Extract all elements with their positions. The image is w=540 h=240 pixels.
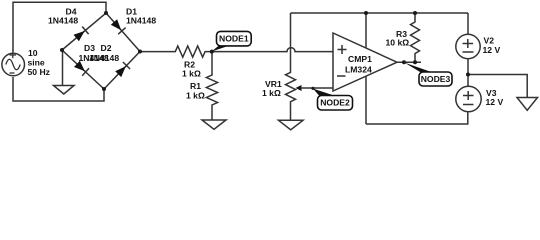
ground at supplies midpoint (517, 98, 538, 111)
svg-text:1N4148: 1N4148 (89, 53, 119, 63)
svg-text:1 kΩ: 1 kΩ (262, 88, 281, 98)
wire: op-amp V+ pin to top rail (365, 13, 367, 48)
V2 minus mark (463, 51, 474, 53)
svg-text:CMP1: CMP1 (348, 54, 372, 64)
ground below R1 (202, 120, 226, 129)
wire: op-amp V- pin to bottom rail (365, 76, 367, 124)
svg-text:1 kΩ: 1 kΩ (186, 91, 205, 101)
junction: node NODE2 anchor (311, 87, 314, 90)
junction: V+ pin on top rail (364, 11, 368, 15)
ground below VR1 (279, 120, 304, 130)
V3 plus mark (463, 91, 474, 100)
svg-text:10 kΩ: 10 kΩ (386, 38, 410, 48)
svg-text:D3: D3 (84, 43, 95, 53)
junction: V2/V3 midpoint (466, 73, 470, 77)
diode D3 cathode bar (82, 68, 89, 75)
svg-text:10: 10 (28, 48, 38, 58)
wire: -12V bottom rail to V3 (366, 112, 468, 124)
diode D4 (74, 31, 85, 41)
svg-text:50 Hz: 50 Hz (28, 67, 50, 77)
svg-text:LM324: LM324 (345, 65, 372, 75)
op-amp non-inverting input plus mark (338, 45, 347, 54)
junction: node NODE1 (R2/R1) (210, 50, 214, 54)
bridge diamond wires (62, 13, 140, 89)
node NODE3 callout tail (405, 63, 433, 73)
wire: +12V top rail (291, 12, 469, 14)
svg-text:1 kΩ: 1 kΩ (182, 69, 201, 79)
diode D2 cathode bar (123, 62, 130, 69)
node NODE2 callout box (318, 96, 353, 111)
resistor R3 with wires to rail and output (411, 13, 420, 62)
AC source V1 body (2, 53, 25, 76)
svg-text:NODE2: NODE2 (320, 98, 350, 108)
svg-text:12 V: 12 V (486, 97, 504, 107)
node NODE3 callout box (419, 72, 452, 86)
V3 minus mark (463, 104, 474, 106)
op-amp U1 CMP1 triangle (333, 33, 397, 91)
diode D1 cathode bar (118, 28, 125, 35)
op-amp inverting input minus mark (337, 75, 346, 77)
node NODE1 callout box (217, 31, 252, 46)
wire: op-amp output (397, 61, 421, 63)
svg-text:NODE3: NODE3 (421, 74, 451, 84)
svg-text:D2: D2 (101, 43, 112, 53)
VR1 wiper arrow (296, 85, 302, 91)
node NODE2 callout tail (313, 89, 334, 96)
diode D3 (74, 61, 85, 72)
diode D1 (111, 19, 121, 30)
junction: node NODE3 anchor (402, 60, 406, 64)
battery source V3 body (456, 86, 481, 111)
wire: V2 bottom to V3 top (467, 59, 469, 87)
node NODE1 callout tail (212, 46, 229, 52)
diode D2 (115, 66, 126, 77)
svg-text:1N4148: 1N4148 (126, 16, 156, 26)
svg-text:R1: R1 (190, 81, 201, 91)
diode D4 cathode bar (82, 27, 88, 35)
wire: V2 top to rail (467, 13, 469, 34)
AC source V1 sine symbol (6, 59, 20, 70)
wire: source top to bridge top corner (13, 2, 106, 52)
AC source V1 plus mark (10, 52, 17, 58)
svg-text:12 V: 12 V (483, 45, 501, 55)
wire: supply midpoint to right ground (468, 75, 527, 98)
resistor R1 with wire from NODE1 (206, 52, 217, 120)
AC source V1 minus mark (10, 72, 15, 74)
junction: bridge left corner (60, 48, 64, 52)
junction: R3 bottom on output (413, 60, 417, 64)
potentiometer VR1 with feed wire from rail (286, 13, 296, 120)
junction: bridge bottom corner (102, 87, 106, 91)
V2 plus mark (463, 39, 474, 48)
wire bridge to R2, resistor R2, wire to op-amp + input with hop over VR1 feed (140, 46, 333, 57)
wire: source bottom to bridge bottom corner (13, 77, 104, 101)
svg-text:1N4148: 1N4148 (48, 16, 78, 26)
battery source V2 body (456, 34, 480, 58)
ground at bridge left corner (54, 50, 75, 94)
svg-text:NODE1: NODE1 (219, 34, 249, 44)
junction: R3 top on rail (413, 11, 417, 15)
svg-text:V2: V2 (484, 36, 495, 46)
junction: bridge right corner (138, 50, 142, 54)
svg-text:sine: sine (28, 58, 45, 68)
junction: bridge top corner (104, 11, 108, 15)
wire: wiper to op-amp inverting input (301, 87, 334, 89)
